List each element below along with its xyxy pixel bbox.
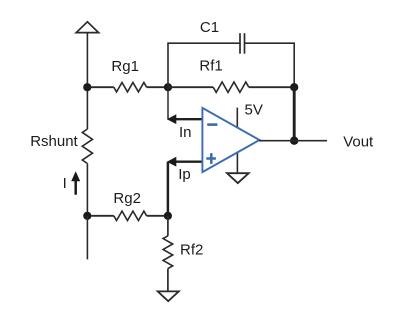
svg-text:Rf1: Rf1 (199, 58, 222, 75)
ground (op-amp) (227, 173, 249, 183)
node: Rg1 tap junction (83, 83, 91, 91)
ground (below Rf2) (158, 291, 179, 301)
svg-text:Rshunt: Rshunt (30, 133, 78, 150)
svg-text:Ip: Ip (178, 166, 191, 183)
wire: In horizontal into op-amp with arrowhead (172, 118, 202, 120)
resistor Rg1 (horizontal zigzag) (91, 86, 114, 88)
svg-text:In: In (179, 124, 192, 141)
resistor Rg2 (horizontal zigzag) (91, 215, 114, 217)
node: Rg2 tap junction (83, 212, 91, 220)
node: Rg2/Rf2/Ip junction (164, 212, 172, 220)
capacitor C1 plates (239, 33, 241, 54)
wire: Ip horizontal into op-amp with arrowhead (172, 161, 202, 163)
resistor Rf2 (vertical zigzag) (167, 216, 169, 236)
svg-text:5V: 5V (245, 102, 263, 119)
wire: feedback vertical (bold) to output node (293, 87, 296, 141)
wire: In vertical drop from node A (167, 87, 169, 119)
svg-text:Rg1: Rg1 (111, 58, 139, 75)
node: feedback top-right junction (290, 83, 298, 91)
5V supply stub (236, 108, 238, 129)
wire: op-amp output to junction (259, 140, 294, 142)
resistor Rshunt (vertical zigzag) (82, 129, 92, 163)
wire: supply arrow down to Rshunt (86, 33, 88, 129)
wire: junction to Vout (294, 140, 327, 142)
svg-text:Rg2: Rg2 (113, 190, 141, 207)
wire: Rshunt to Rg2 junction (86, 164, 88, 216)
current arrow I (up) (74, 180, 77, 195)
capacitor C1 branch wires (168, 43, 240, 87)
svg-text:C1: C1 (200, 19, 219, 36)
op-amp U1 (triangle) (202, 108, 259, 172)
node A: inverting input net junction (164, 83, 172, 91)
resistor Rf1 (horizontal zigzag) (168, 86, 213, 88)
wire: Ip vertical (bold) down to Rg2/Rf2 junction (167, 162, 170, 216)
op-amp minus sign (207, 123, 217, 126)
svg-text:Vout: Vout (343, 134, 374, 151)
svg-text:Rf2: Rf2 (180, 242, 203, 259)
node: output junction (290, 137, 298, 145)
op-amp plus sign (206, 157, 216, 160)
svg-text:I: I (63, 175, 67, 192)
wire: bottom left open end (86, 216, 88, 259)
ground stub (below op-amp) (236, 152, 238, 173)
supply arrow (open triangle, top left) (76, 22, 98, 33)
